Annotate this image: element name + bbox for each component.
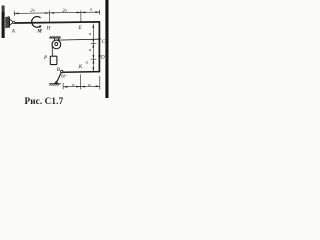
svg-text:Рис. С1.7: Рис. С1.7 (25, 96, 64, 106)
svg-text:2a: 2a (30, 7, 35, 12)
support A wall line (8, 17, 10, 28)
vertical dimension line (92, 24, 94, 72)
pulley ceiling line (49, 37, 60, 39)
support A triangle (10, 19, 14, 25)
extension line at K (80, 74, 82, 89)
bottom dim arrows (63, 85, 100, 87)
bottom dimension line (63, 85, 100, 88)
vertical dim tick at C level (91, 42, 97, 44)
vertical dim tick at D level (91, 58, 97, 60)
svg-text:60°: 60° (61, 75, 67, 79)
pin circle at B (61, 70, 64, 73)
dim arrows top (15, 11, 100, 14)
bottom member B to frame (63, 71, 101, 74)
rope down to weight (51, 44, 53, 56)
svg-text:D: D (100, 55, 105, 61)
svg-text:K: K (78, 64, 83, 70)
pulley bracket (54, 38, 59, 43)
extension line below B (62, 83, 64, 89)
svg-text:C: C (102, 39, 106, 45)
tick at D (98, 55, 101, 57)
rod foot triangle (54, 81, 58, 84)
right page-edge bar (105, 0, 108, 98)
right vertical member (98, 21, 100, 72)
tick at A (13, 11, 15, 16)
pulley wheel (52, 40, 61, 49)
left page-edge bar (2, 6, 5, 39)
tick at corner (99, 10, 101, 15)
extension line at H (49, 11, 51, 23)
pin circle at A (13, 21, 15, 23)
moment M arrowhead (39, 25, 42, 28)
svg-text:E: E (78, 25, 83, 31)
pulley hub (55, 43, 58, 46)
beam A to corner (15, 22, 100, 23)
rod at B (60 deg) (56, 72, 61, 83)
top dimension line (14, 12, 99, 13)
svg-text:2a: 2a (62, 7, 67, 12)
rope to C (57, 38, 100, 41)
rod ground hatch (49, 84, 59, 86)
tick at C (98, 38, 101, 40)
extension line at frame corner (99, 76, 101, 90)
vertical dim arrows (92, 24, 94, 72)
svg-text:A: A (11, 29, 16, 35)
svg-text:M: M (36, 28, 42, 34)
moment M arc (32, 16, 41, 27)
rod ground line (49, 83, 60, 85)
weight P box (50, 56, 57, 64)
support A hatched wall block (5, 17, 9, 28)
pulley ceiling hatch (50, 36, 61, 38)
extension line at E (80, 10, 82, 22)
